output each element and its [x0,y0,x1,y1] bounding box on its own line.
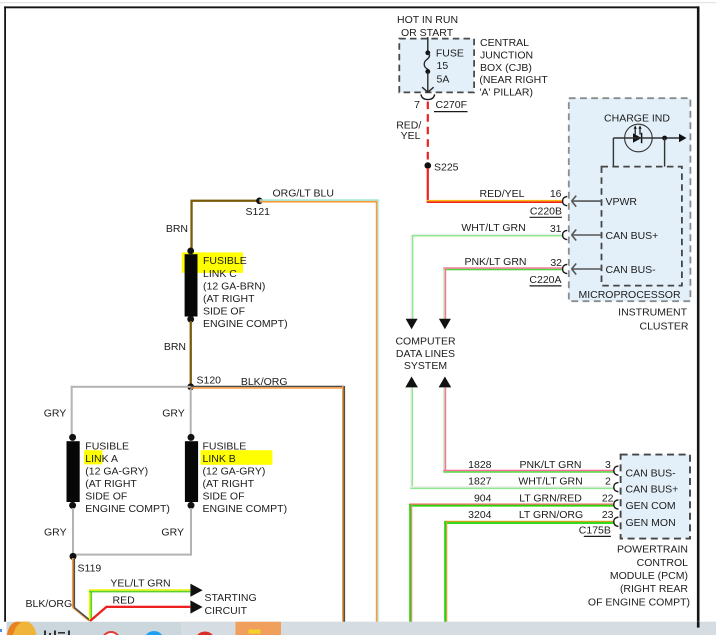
text: C220A [529,274,561,286]
page border frame [4,6,6,622]
text: HOT IN RUN OR START [397,14,458,39]
text: INSTRUMENT CLUSTER [618,307,689,333]
svg-text:YEL/LT GRN: YEL/LT GRN [110,578,170,590]
connector cup pin32 [563,264,568,273]
svg-text:GRY: GRY [161,527,184,539]
wire: 1827 horizontal to PCM [410,486,613,487]
svg-text:S121: S121 [246,206,271,218]
svg-text:(RIGHT REAR: (RIGHT REAR [620,583,688,595]
svg-text:OF ENGINE COMPT): OF ENGINE COMPT) [588,596,690,608]
highlight: LINK A [84,450,102,464]
wire: RED/YEL dashed (C270F to S225) [427,102,429,164]
connector cup PCM pin2 [614,482,619,491]
svg-text:BOX (CJB): BOX (CJB) [480,62,532,74]
microprocessor box U1 [602,167,682,286]
text: microprocessor pins [578,196,681,301]
svg-text:C175B: C175B [579,525,611,537]
wire: WHT/LT GRN horizontal pin 31 [412,234,562,235]
svg-text:S225: S225 [434,162,459,174]
wire: BRN link C to S120 [190,321,192,385]
connector C220B cup pin16 [563,196,568,205]
svg-text:ENGINE COMPT): ENGINE COMPT) [203,318,288,330]
svg-text:(AT RIGHT: (AT RIGHT [85,478,137,490]
text: GRY labels upper [44,408,185,420]
connector cup PCM pin3 [614,466,619,475]
wire: RED/YEL horizontal to cluster pin 16 [427,200,563,202]
wire: left drop to microprocessor [612,138,614,167]
svg-text:DATA LINES: DATA LINES [396,348,455,360]
LED symbol [633,125,642,143]
svg-text:23: 23 [602,509,614,521]
highlight: FUSIBLE LINK C [182,252,243,273]
svg-text:904: 904 [474,493,492,505]
wire: 1828 horizontal to PCM [443,470,613,472]
svg-text:CAN BUS+: CAN BUS+ [626,483,679,495]
svg-text:5A: 5A [437,74,450,86]
svg-text:CAN BUS+: CAN BUS+ [606,230,659,242]
svg-text:LINK A: LINK A [85,453,118,465]
svg-text:22: 22 [602,493,614,505]
svg-text:CHARGE IND: CHARGE IND [604,112,670,124]
svg-text:LINK B: LINK B [203,453,236,465]
svg-text:HOT IN RUN: HOT IN RUN [397,14,458,26]
svg-text:RED/YEL: RED/YEL [480,188,525,200]
text: STARTING CIRCUIT [205,592,257,617]
svg-text:YEL: YEL [401,130,421,142]
text: fusible link B label [203,441,288,516]
svg-text:C220B: C220B [530,206,562,218]
svg-text:WHT/LT GRN: WHT/LT GRN [518,475,582,487]
arrow: data line up left [405,377,418,388]
text: 3204 LT GRN/ORG 23 [468,509,614,521]
wire: PNK/LT GRN vertical down [443,269,444,319]
svg-text:STARTING: STARTING [205,592,257,604]
svg-text:ENGINE COMPT): ENGINE COMPT) [85,503,170,515]
wire: RED diagonal [90,607,106,621]
wire: 904 horizontal [409,504,613,505]
svg-text:FUSIBLE: FUSIBLE [203,255,247,267]
text: fusible link A label [85,441,170,516]
svg-text:ENGINE COMPT): ENGINE COMPT) [203,503,288,515]
svg-text:CAN BUS-: CAN BUS- [626,467,677,479]
wire: feed into fuse [427,37,429,53]
svg-text:SYSTEM: SYSTEM [404,360,447,372]
svg-text:7: 7 [414,99,420,111]
svg-text:LT GRN/RED: LT GRN/RED [519,493,582,505]
text: 904 LT GRN/RED 22 [474,493,614,505]
wire: YEL/LT GRN horizontal [89,589,190,591]
svg-text:MICROPROCESSOR: MICROPROCESSOR [578,289,681,301]
text: CJB description [479,37,548,98]
arrow: starting circuit top [190,584,202,597]
connector cup pin31 [563,230,568,239]
wire: GRY vertical mid [190,389,192,435]
arrow: starting circuit bottom [190,600,202,613]
wire: GRY below link B [190,508,192,556]
wire: ORG/LT BLU horizontal [259,199,379,201]
svg-text:FUSIBLE: FUSIBLE [203,441,247,453]
svg-text:(NEAR RIGHT: (NEAR RIGHT [479,74,548,86]
svg-text:3204: 3204 [468,509,492,521]
charge indicator lamp circle [625,124,653,152]
svg-text:16: 16 [550,188,562,200]
wire: YEL/LT GRN vertical [89,590,91,621]
text: GRY labels lower [44,527,184,539]
connector C270F cup [421,94,435,99]
text: RED/ YEL label [396,120,421,143]
svg-text:GEN MON: GEN MON [626,517,676,529]
svg-text:FUSE: FUSE [436,48,464,60]
wire: charge ind line [613,137,679,139]
svg-text:2: 2 [605,475,611,487]
splice S119 [70,553,77,560]
text: fusible link C label [203,255,288,330]
text: COMPUTER DATA LINES SYSTEM [395,336,456,373]
text: C220B [530,206,563,218]
taskbar strip [0,622,716,635]
svg-text:CENTRAL: CENTRAL [480,37,529,49]
top hairline [0,2,716,3]
svg-text:GRY: GRY [44,527,67,539]
svg-text:INSTRUMENT: INSTRUMENT [618,307,687,319]
svg-text:(AT RIGHT: (AT RIGHT [203,478,255,490]
svg-text:PNK/LT GRN: PNK/LT GRN [464,256,526,268]
svg-text:S120: S120 [197,375,222,387]
wire: BRN vertical S121 to link C [190,201,192,249]
wire: 904 vertical down [409,504,411,622]
arrow: data line down right [439,319,451,330]
svg-text:GEN COM: GEN COM [626,500,676,512]
pin32 arrow into cluster [572,264,602,275]
svg-text:CONTROL: CONTROL [637,557,688,569]
svg-text:VPWR: VPWR [606,196,638,208]
text: RED/YEL 16 [480,188,562,200]
svg-text:WHT/LT GRN: WHT/LT GRN [461,222,525,234]
wire: BLK/ORG diagonal [73,608,90,621]
svg-text:SIDE OF: SIDE OF [203,491,245,503]
svg-text:CIRCUIT: CIRCUIT [205,605,248,617]
text: fuse labels [436,48,464,86]
svg-text:COMPUTER: COMPUTER [395,336,456,348]
svg-text:LINK C: LINK C [203,268,237,280]
wire: GRY horizontal to S119 [72,554,192,556]
text: PNK/LT GRN 32 [464,256,562,269]
fusible link B [188,434,195,441]
svg-text:1827: 1827 [468,475,492,487]
svg-text:(12 GA-BRN): (12 GA-BRN) [203,280,265,292]
arrow: data line up right [439,377,452,388]
fusible link C [187,248,194,255]
wire: PNK/LT GRN 1828 vertical [443,388,444,471]
wire: RED horizontal [106,606,191,608]
svg-text:MODULE (PCM): MODULE (PCM) [610,570,688,582]
connector cup PCM pin22 [614,500,619,509]
svg-text:15: 15 [437,60,449,72]
svg-text:GRY: GRY [162,408,185,420]
wire: BLK/ORG horizontal from S120 [191,386,344,388]
svg-text:1828: 1828 [468,459,492,471]
wire: 3204 vertical down [444,521,446,622]
svg-text:'A' PILLAR): 'A' PILLAR) [479,86,533,98]
svg-text:(12 GA-GRY): (12 GA-GRY) [203,466,266,478]
text: WHT/LT GRN 31 [461,222,561,235]
text: 1828 PNK/LT GRN 3 [468,459,611,471]
svg-text:(12 GA-GRY): (12 GA-GRY) [85,466,148,478]
svg-text:3: 3 [605,459,611,471]
svg-text:ORG/LT BLU: ORG/LT BLU [272,187,333,199]
text: C175B [579,525,611,537]
svg-text:C220A: C220A [529,274,561,286]
connector cup PCM pin23 [614,517,619,526]
wire: ORG/LT BLU vertical to bottom [376,201,378,622]
node: junction dot [662,136,667,141]
highlight: LINK B [201,450,273,465]
svg-text:(AT RIGHT: (AT RIGHT [203,293,255,305]
wire: 3204 horizontal [444,521,613,522]
svg-text:31: 31 [550,223,562,235]
fuse F15 element [422,50,434,92]
CJB fuse box [399,39,474,93]
wire: red vertical below S225 [427,168,429,202]
text: 1827 WHT/LT GRN 2 [468,475,611,487]
svg-text:BLK/ORG: BLK/ORG [26,598,73,610]
svg-text:SIDE OF: SIDE OF [203,306,245,318]
svg-text:FUSIBLE: FUSIBLE [85,441,129,453]
wire: GRY below link A [72,508,74,556]
text: pin 7 / C270F [414,99,467,112]
wire: right drop to microprocessor [664,138,666,167]
svg-text:GRY: GRY [44,408,67,420]
svg-text:BRN: BRN [166,223,188,235]
svg-text:CAN BUS-: CAN BUS- [606,264,657,276]
svg-text:JUNCTION: JUNCTION [480,50,533,62]
wire: PNK/LT GRN horizontal pin 32 [443,267,562,269]
instrument cluster box [569,98,691,301]
svg-text:CLUSTER: CLUSTER [639,320,688,332]
svg-text:C270F: C270F [436,99,468,111]
wire: WHT/LT GRN vertical down [411,235,412,319]
svg-text:S119: S119 [78,563,102,575]
text: PCM pins [626,467,679,529]
wire: BLK/ORG below S119 [72,558,74,608]
wire: BLK/ORG vertical to bottom [342,386,344,622]
fusible link A [69,434,76,441]
pin16 arrow into cluster [572,196,602,207]
text: PCM label [588,544,690,609]
wire: BRN horizontal S121 left [191,200,260,202]
splice S120 [187,383,194,390]
svg-text:SIDE OF: SIDE OF [85,491,127,503]
arrow: data line down left [406,319,418,330]
svg-text:LT GRN/ORG: LT GRN/ORG [519,509,583,521]
pin31 arrow into cluster [572,230,602,241]
svg-text:RED: RED [113,595,136,607]
svg-text:POWERTRAIN: POWERTRAIN [617,544,688,556]
splice S225 [425,162,432,169]
splice S121 [256,198,263,205]
svg-text:BRN: BRN [164,341,186,353]
wire: WHT/LT GRN 1827 vertical [410,388,411,487]
PCM box [621,455,690,539]
wire: GRY horizontal from S120 [71,386,191,388]
wire: GRY vertical left [71,386,73,435]
svg-text:PNK/LT GRN: PNK/LT GRN [519,459,581,471]
